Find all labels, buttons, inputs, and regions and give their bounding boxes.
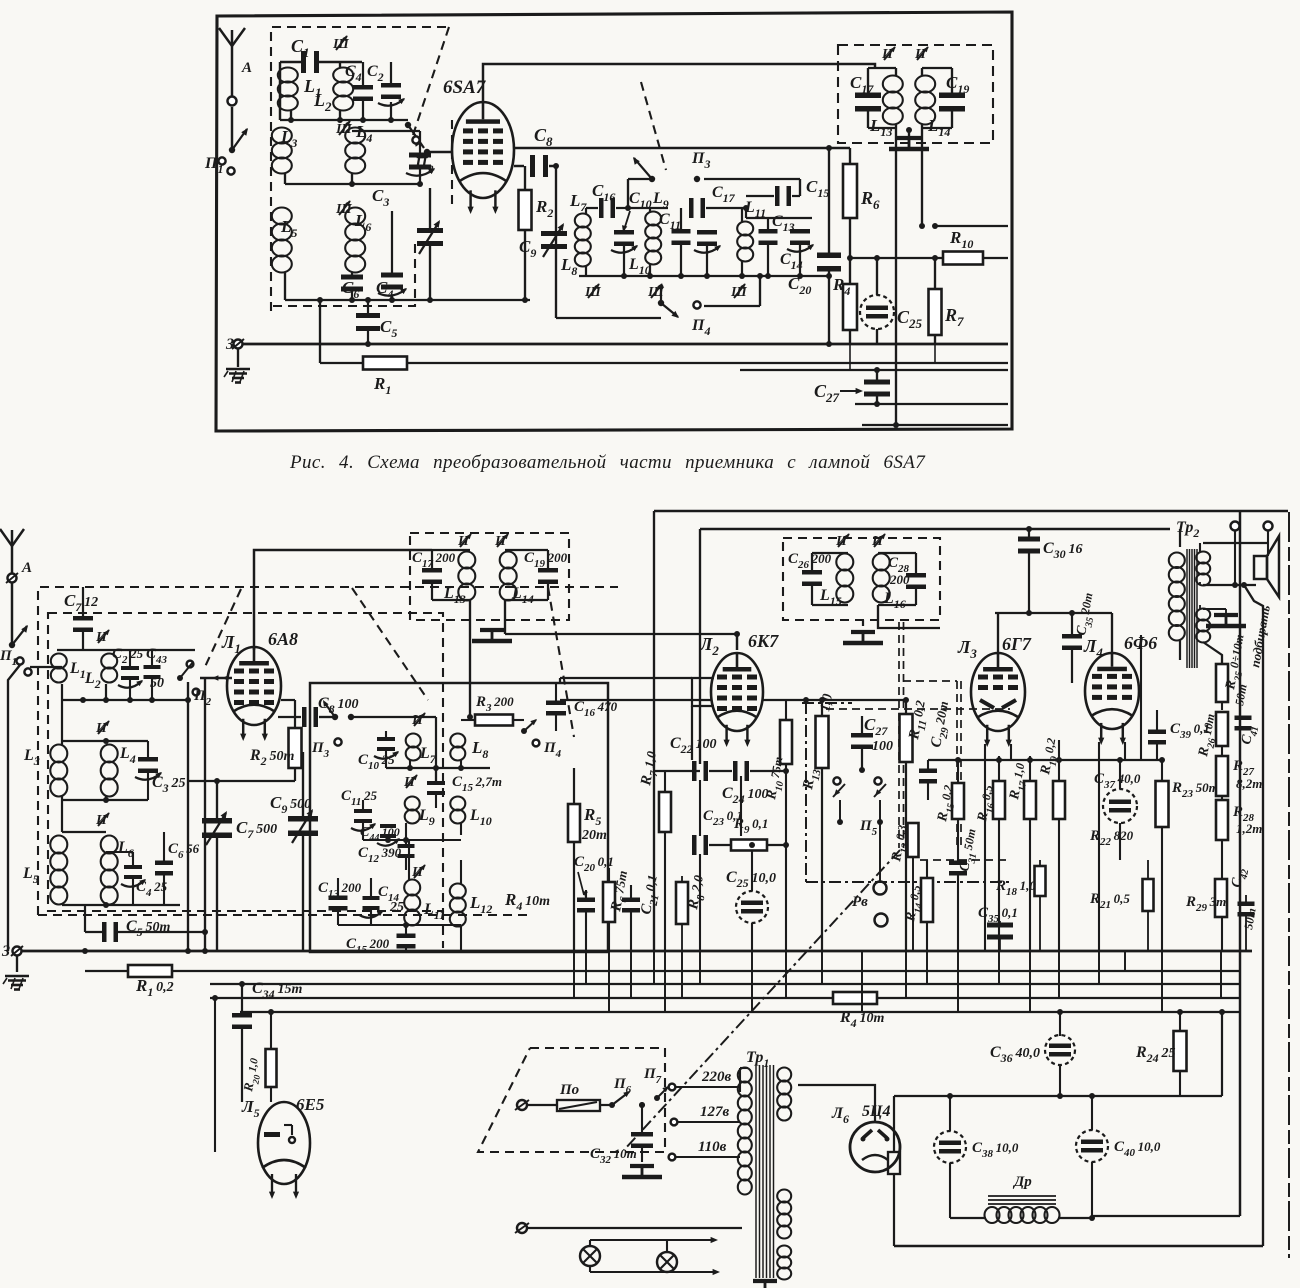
- pilot lamps: [590, 1239, 714, 1241]
- capacitor C42 50т: [1238, 902, 1255, 907]
- resistor R15 0,2: [952, 783, 964, 819]
- electrolytic C40 10,0: [1076, 1130, 1108, 1162]
- resistor R5 20т: [568, 804, 580, 842]
- oscillator switch П3: [627, 148, 629, 208]
- coil L1: [278, 68, 298, 83]
- bottom right bus wires: [740, 369, 1008, 371]
- IF transformer dashed box: [838, 45, 993, 143]
- gang variable C9 500: [288, 816, 318, 822]
- ground bus bottom: [22, 950, 1252, 953]
- switch П2 input: [177, 675, 183, 681]
- junction row y700: [62, 699, 188, 701]
- capacitor C15 2,7т: [427, 781, 445, 785]
- wire C1 to L1: [279, 62, 281, 120]
- capacitor C21 0,1: [622, 898, 640, 903]
- resistor R19 0,2: [1053, 781, 1065, 819]
- IF1 core chassis: [469, 600, 471, 717]
- ground symbol: [237, 349, 239, 367]
- capacitor C30 16: [1018, 537, 1040, 542]
- capacitor C41 50т: [1235, 716, 1252, 721]
- right rail vertical: [1239, 511, 1241, 1216]
- resistor R11 0,2: [900, 714, 913, 762]
- switch П2 contacts: [405, 122, 411, 128]
- resistor R27 8,2т: [1216, 756, 1228, 796]
- IF core chassis symbol: [906, 127, 912, 133]
- capacitor C5: [356, 313, 380, 318]
- power dashed box: [478, 1048, 665, 1152]
- bus wires middle: [210, 983, 1240, 985]
- wire row y840: [363, 839, 461, 841]
- coil L6: [345, 208, 365, 225]
- capacitor C6 56: [155, 861, 173, 866]
- П4 bottom wire: [556, 317, 661, 319]
- mains terminal: [517, 1223, 527, 1233]
- wire П2 to tube grid: [200, 677, 232, 679]
- tube top cap wire to IF box: [483, 64, 875, 102]
- bottom antenna: [11, 530, 13, 573]
- dashed inner band box: [48, 613, 443, 911]
- resistor R2: [514, 165, 524, 167]
- wire L7 L8 row: [409, 760, 411, 768]
- wire row y741 y800: [62, 740, 148, 742]
- wire row y184: [285, 183, 420, 185]
- svg-text:5Ц4: 5Ц4: [862, 1103, 890, 1120]
- svg-text:25: 25: [389, 900, 404, 915]
- resistor R7 1,0: [659, 792, 671, 832]
- svg-text:127в: 127в: [700, 1104, 730, 1120]
- svg-text:110в: 110в: [698, 1139, 727, 1155]
- coil L2: [333, 68, 353, 83]
- svg-text:Рис. 4. Схема преобразовательн: Рис. 4. Схема преобразовательной части п…: [289, 452, 926, 473]
- wire tank row to C20 column: [828, 148, 830, 253]
- coil L14 IF1: [500, 552, 517, 569]
- coil L12 osc: [450, 884, 466, 899]
- IF transformer 1 dashed box: [410, 533, 569, 620]
- wire П1 to input box: [30, 666, 62, 668]
- svg-text:6А8: 6А8: [268, 629, 298, 649]
- coil L5: [272, 208, 292, 225]
- coil L4 input: [101, 745, 118, 763]
- wire antenna switch to coil row: [230, 175, 232, 180]
- coil L4: [345, 128, 365, 144]
- electrolytic C38 10,0: [934, 1131, 966, 1163]
- antenna: [231, 30, 233, 96]
- coil L8 osc: [450, 734, 465, 748]
- electrolytic C25 10,0: [736, 891, 768, 923]
- coil L16 IF2: [873, 554, 890, 571]
- switch П4: [658, 300, 664, 306]
- resistor R6: [843, 164, 857, 218]
- oscillator solid box: [310, 683, 608, 952]
- svg-text:6Г7: 6Г7: [1002, 634, 1032, 654]
- svg-text:По: По: [559, 1082, 579, 1098]
- dash-dot linkage detector: [802, 702, 852, 704]
- wire detector row y700: [560, 699, 711, 701]
- capacitor C5 50т: [102, 922, 107, 942]
- AVC dashed pair vertical: [898, 622, 900, 848]
- top schematic frame: [216, 12, 1012, 431]
- svg-text:100: 100: [872, 739, 893, 754]
- coil L13 IF1: [458, 552, 475, 569]
- speaker return rail: [1244, 585, 1263, 1246]
- svg-text:6SA7: 6SA7: [443, 77, 487, 98]
- resistor R1 bottom: [84, 951, 86, 971]
- wire IF2 to 6Г7: [878, 605, 940, 628]
- IF2 core chassis: [851, 630, 875, 634]
- svg-text:20т: 20т: [581, 828, 607, 843]
- B+ rail top: [654, 510, 1288, 512]
- capacitor C6: [341, 275, 363, 280]
- screen wire y148: [514, 147, 850, 149]
- resistor R3 200: [475, 715, 513, 726]
- wire L14 to detector row: [919, 223, 925, 229]
- resistor R17 1,0: [1024, 781, 1036, 819]
- resistor R6 75т: [603, 882, 615, 922]
- resistor R23 50т: [1156, 781, 1169, 827]
- switch П3 bottom: [332, 714, 338, 720]
- coil L11 osc: [404, 880, 420, 896]
- bus vertical links: [895, 344, 897, 425]
- coil L7 osc: [406, 734, 421, 748]
- capacitor C29 20т: [919, 769, 937, 774]
- page edge line: [1288, 512, 1290, 1258]
- electrolytic C36 40,0: [1045, 1035, 1075, 1065]
- coil L15 IF2: [836, 554, 853, 571]
- electrolytic capacitor C25: [860, 295, 894, 329]
- svg-text:А: А: [241, 60, 252, 76]
- dashed outer band box: [38, 587, 618, 915]
- trimmer C4 25: [124, 865, 142, 869]
- coil L14: [915, 76, 935, 93]
- grid return wire y760: [928, 759, 1162, 761]
- coil L3: [272, 128, 292, 144]
- capacitor C4 trimmer: [381, 273, 403, 278]
- coil L1 input: [51, 654, 67, 669]
- coil L3 input: [50, 745, 67, 763]
- junction row y120: [280, 119, 408, 121]
- capacitor C35b 0,1: [987, 923, 1013, 928]
- switch П1: [231, 107, 233, 147]
- resistor R1: [319, 300, 321, 363]
- capacitor C39 0,1: [1148, 730, 1166, 735]
- gang variable capacitor RF: [417, 228, 443, 233]
- resistor R18 1,0: [1035, 866, 1046, 896]
- trimmer C3 25: [138, 757, 158, 762]
- detector column R13: [816, 716, 829, 768]
- resistor R20 1,0: [266, 1049, 277, 1087]
- capacitor C35 20т: [1062, 634, 1082, 639]
- svg-text:6К7: 6К7: [748, 631, 779, 651]
- AVC dashed horizontal: [826, 708, 1010, 710]
- resistor R4: [843, 284, 857, 330]
- wire row y300: [285, 299, 530, 301]
- bottom switch П1: [11, 583, 13, 643]
- resistor R28 1,2т: [1216, 800, 1228, 840]
- coil L13: [883, 76, 903, 93]
- switch П5: [833, 777, 840, 784]
- wire C8 down column: [555, 166, 557, 318]
- wire row y832 y905: [62, 831, 106, 833]
- resistor R10: [943, 252, 983, 265]
- tube grid input wire: [450, 151, 452, 153]
- speaker: [1254, 556, 1267, 579]
- switch П4 bottom: [521, 728, 527, 734]
- resistor R21 0,5: [1143, 879, 1154, 911]
- band switch long verticals: [187, 682, 189, 951]
- resistor R16 0,5: [993, 781, 1005, 819]
- coil L9 osc: [405, 797, 420, 811]
- wire IF secondary out: [935, 225, 1008, 227]
- dashed band-switch linkage top: [271, 27, 449, 311]
- wire П3 row to osc box: [351, 716, 436, 718]
- svg-text:Рв: Рв: [852, 894, 868, 910]
- coil L2 input: [101, 654, 117, 669]
- resistor R26 10т: [1216, 712, 1228, 746]
- svg-text:Др: Др: [1012, 1174, 1032, 1190]
- tank bottom row: [579, 275, 829, 277]
- svg-text:220в: 220в: [701, 1069, 732, 1085]
- bus crossing column stubs: [573, 951, 575, 998]
- П4 right wire: [704, 305, 760, 307]
- speaker terminals: [1231, 522, 1240, 531]
- resistor R10 75т: [780, 720, 792, 764]
- Тр2 lower secondary ground: [1203, 608, 1226, 610]
- output filter wire: [894, 1095, 1222, 1097]
- right chain resistor R25: [1203, 642, 1222, 664]
- Л1 top cap wire to IF1: [254, 550, 432, 650]
- wire Тр2 secondary to speaker: [1203, 542, 1268, 544]
- capacitor C3 trimmer: [409, 153, 431, 158]
- capacitor C16 470: [546, 701, 566, 706]
- resistor R7: [929, 289, 942, 335]
- IF transformer 2 dashed box: [783, 538, 940, 620]
- capacitor C31 50т: [949, 861, 967, 866]
- resistor R8 2,0: [676, 882, 688, 924]
- wire П1 down to ground bus: [8, 665, 20, 951]
- Тр1 core ground: [753, 1279, 777, 1283]
- wire IF1 to 6К7 row: [505, 633, 737, 635]
- resistor R14 0,5: [921, 878, 933, 922]
- resistor R2 50т: [289, 728, 302, 768]
- coil L5 input: [50, 836, 67, 854]
- gang variable C7 500: [202, 818, 232, 824]
- wire y258 row: [829, 257, 850, 259]
- svg-text:З: З: [1, 943, 10, 960]
- resistor R29 3т: [1215, 879, 1227, 917]
- coil L10 osc: [450, 797, 465, 811]
- wire eye tube column: [214, 998, 216, 1152]
- ground bus y344: [243, 343, 1008, 346]
- svg-text:А: А: [21, 560, 32, 576]
- resistor R24 25: [1174, 1031, 1187, 1071]
- tank2 trimmer C18: [697, 230, 717, 235]
- electrolytic C37 40,0: [1103, 789, 1137, 823]
- resistor R12 0,3: [908, 823, 919, 857]
- rectifier wires: [798, 1085, 875, 1122]
- coil L6 input: [101, 836, 118, 854]
